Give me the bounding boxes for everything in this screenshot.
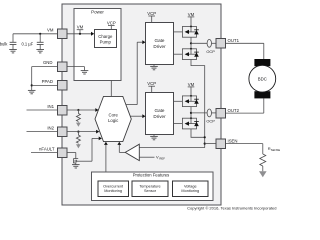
svg-text:OUT1: OUT1 [228, 38, 240, 43]
svg-text:Pump: Pump [100, 40, 112, 45]
svg-text:VM: VM [47, 28, 54, 33]
svg-text:Temperature: Temperature [139, 184, 160, 188]
svg-text:PPAD: PPAD [42, 79, 53, 84]
svg-text:OCP: OCP [206, 119, 215, 124]
svg-text:ISEN: ISEN [228, 138, 238, 143]
svg-text:0.1 µF: 0.1 µF [21, 41, 33, 46]
svg-text:REF: REF [159, 157, 165, 161]
svg-text:VCP: VCP [147, 81, 156, 86]
svg-text:Overcurrent: Overcurrent [103, 184, 124, 188]
svg-text:Sensor: Sensor [144, 189, 157, 193]
svg-text:bulk: bulk [0, 41, 8, 46]
svg-text:VM: VM [188, 82, 195, 87]
svg-text:VCP: VCP [107, 21, 116, 26]
svg-text:VCP: VCP [147, 11, 156, 16]
svg-text:Copyright © 2016, Texas Instru: Copyright © 2016, Texas Instruments Inco… [187, 205, 276, 210]
svg-text:IN2: IN2 [47, 126, 54, 131]
svg-text:Power: Power [91, 10, 104, 15]
svg-text:VM: VM [188, 12, 195, 17]
svg-text:BDC: BDC [258, 76, 267, 81]
svg-text:Driver: Driver [153, 44, 166, 49]
svg-text:Logic: Logic [108, 118, 119, 123]
svg-text:GND: GND [43, 60, 53, 65]
svg-text:Protection Features: Protection Features [133, 173, 170, 178]
svg-text:Monitoring: Monitoring [181, 189, 199, 193]
svg-text:Gate: Gate [155, 108, 165, 113]
svg-text:Core: Core [109, 113, 119, 118]
svg-text:OUT2: OUT2 [228, 108, 240, 113]
svg-text:SENSE: SENSE [271, 148, 280, 152]
svg-text:IN1: IN1 [47, 104, 54, 109]
svg-text:Monitoring: Monitoring [104, 189, 122, 193]
svg-text:Voltage: Voltage [184, 184, 197, 188]
svg-text:VM: VM [77, 25, 84, 30]
svg-text:nFAULT: nFAULT [39, 146, 55, 151]
svg-text:Charge: Charge [98, 34, 113, 39]
svg-text:OCP: OCP [206, 49, 215, 54]
svg-text:Driver: Driver [153, 114, 166, 119]
svg-text:Gate: Gate [155, 38, 165, 43]
